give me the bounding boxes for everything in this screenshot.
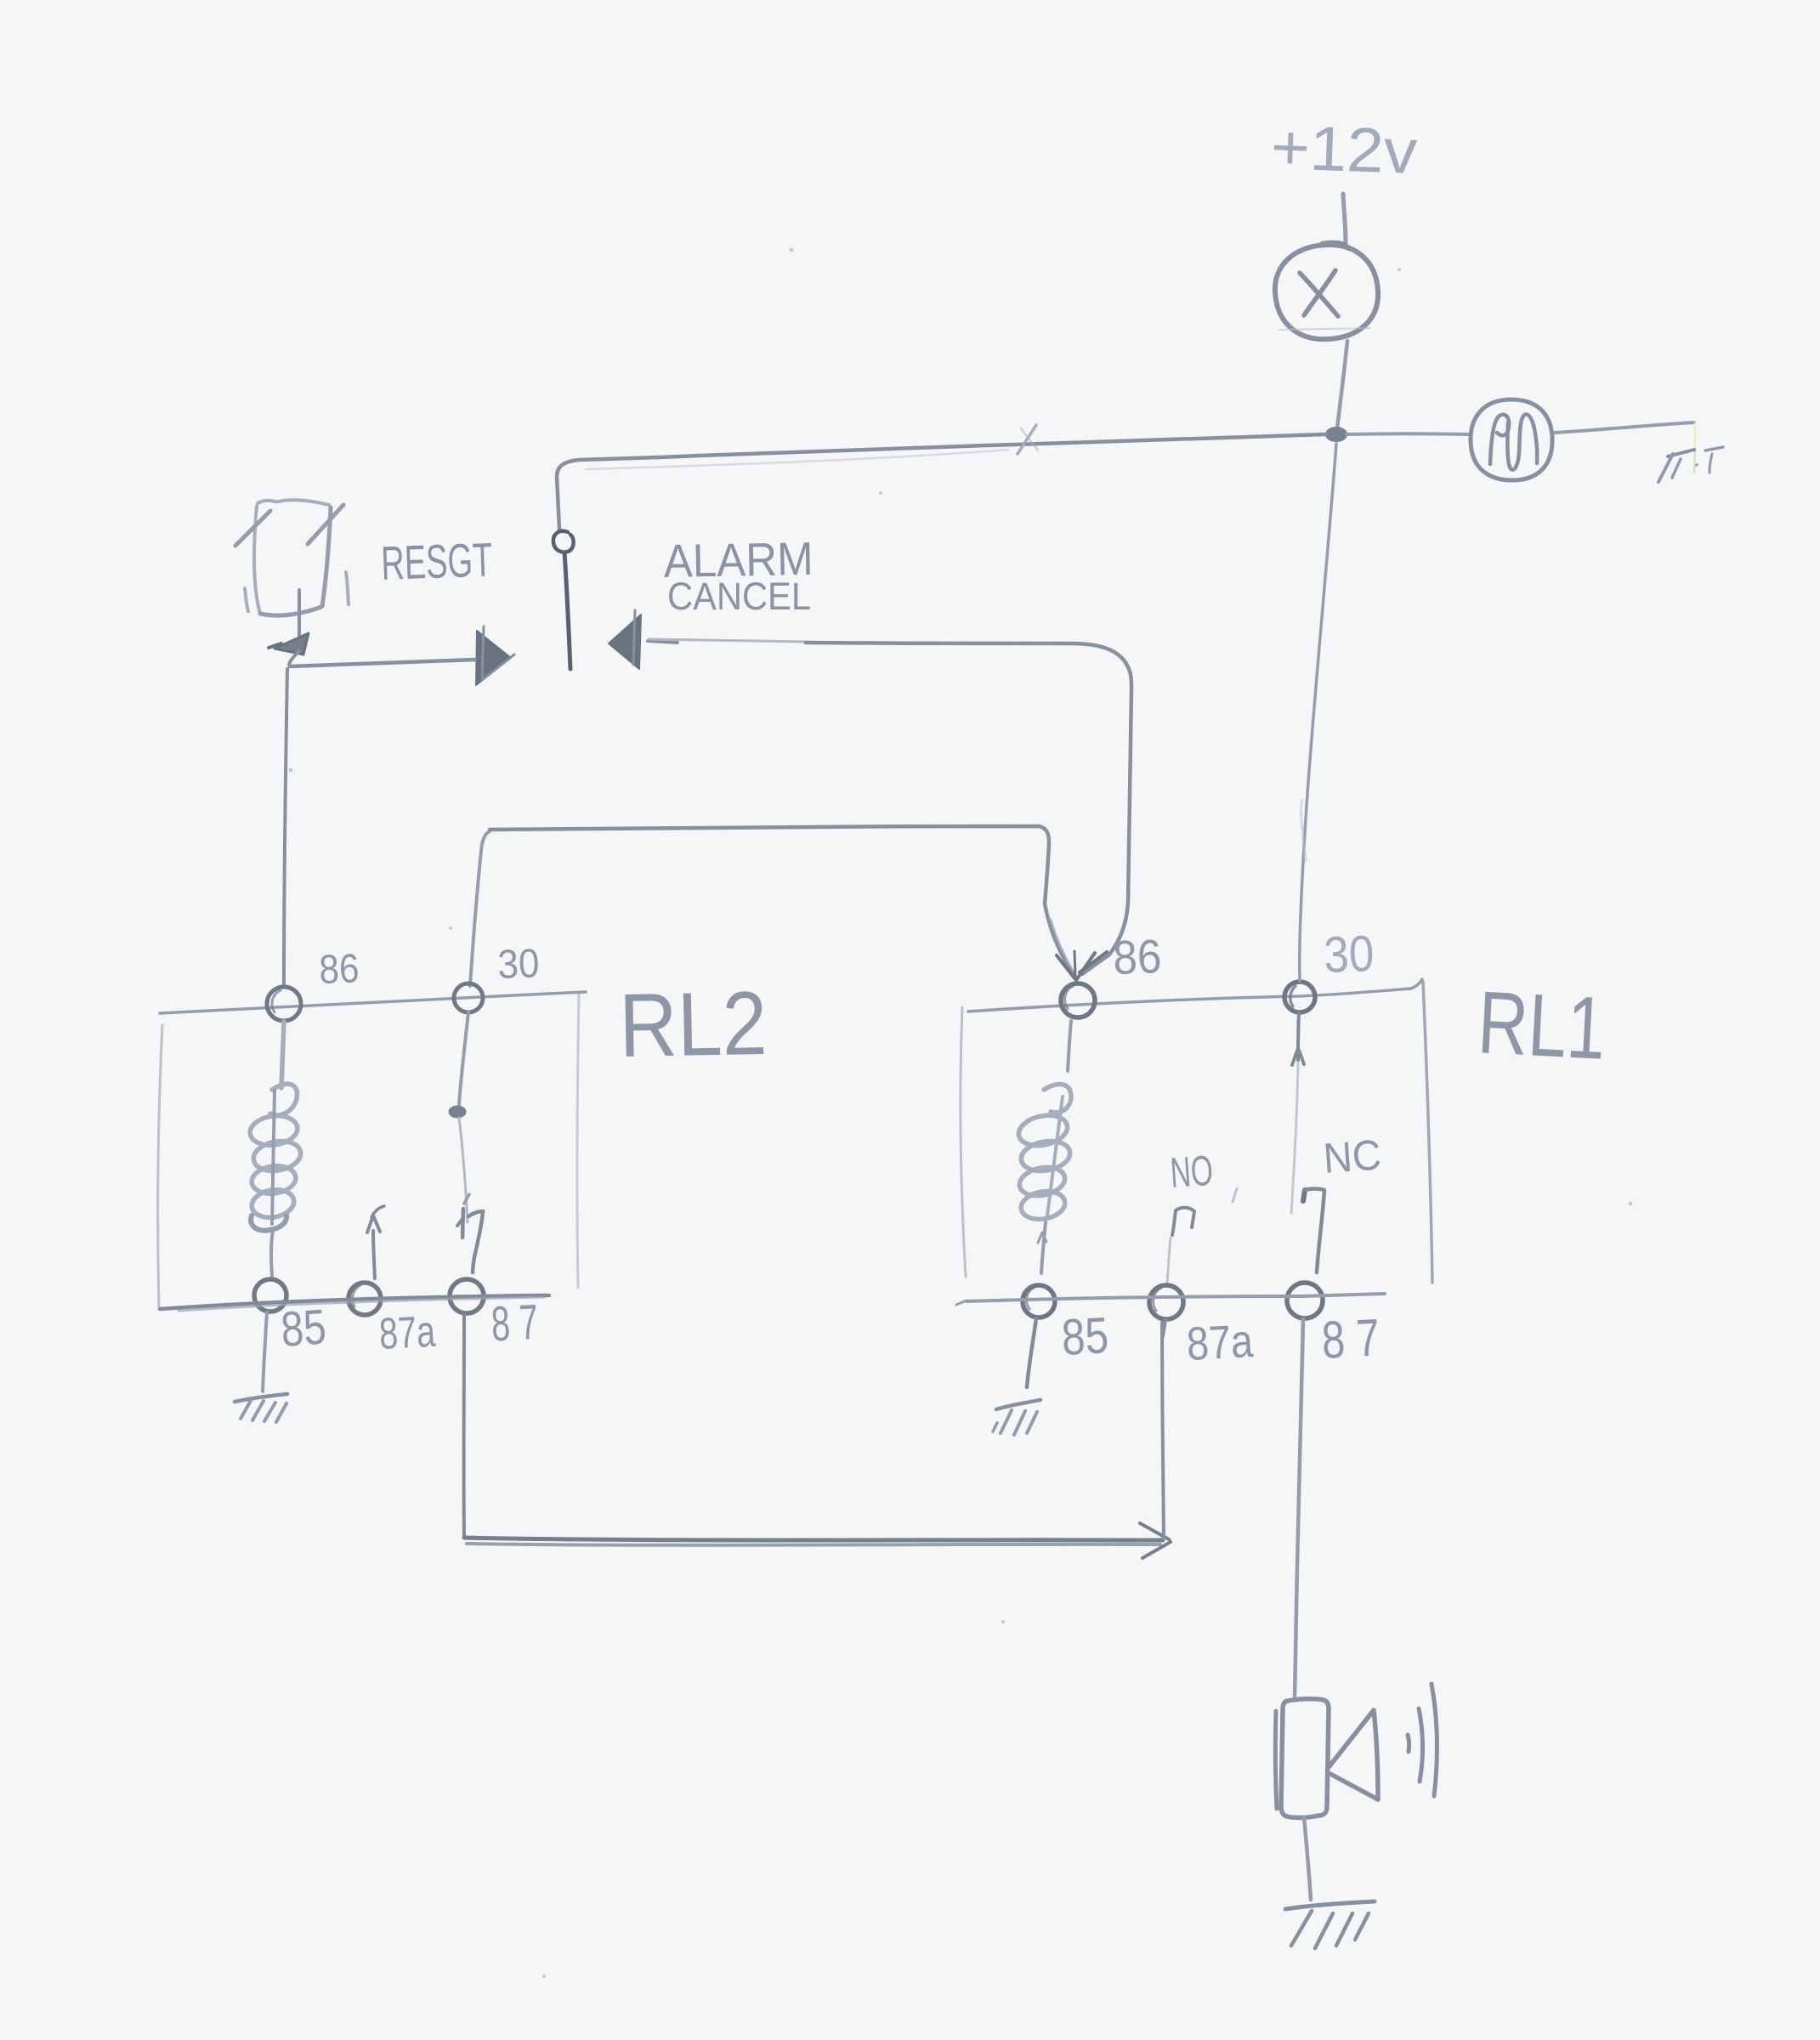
horn H1 cone <box>1329 1710 1378 1799</box>
label RL1 pin 87 <box>1320 1309 1381 1370</box>
wire RL1 87a down to bottom loop <box>1163 1320 1165 1336</box>
label RL2 <box>618 973 768 1076</box>
label RL2 pin 87 <box>490 1295 539 1352</box>
label RESET <box>380 532 493 590</box>
relay RL2 box <box>158 994 579 1306</box>
relay RL1 pin 87 terminal <box>1287 1283 1323 1318</box>
ground (top right) <box>1658 447 1723 482</box>
wire sensor to ground <box>1555 422 1694 433</box>
svg-text:+12v: +12v <box>1270 111 1419 187</box>
scan artifact colored streak <box>1694 422 1698 473</box>
relay RL1 NO hook at 87a <box>1167 1188 1237 1285</box>
relay RL1 pin 30 terminal <box>1284 982 1315 1012</box>
relay RL1 pin 86 terminal <box>1061 983 1095 1017</box>
svg-text:87a: 87a <box>1185 1314 1254 1370</box>
svg-text:NC: NC <box>1322 1130 1383 1182</box>
wire reset button to reset contact and down to RL2 86 <box>284 651 475 984</box>
label ALARM CANCEL <box>663 532 814 618</box>
relay RL2 pin 87a terminal <box>349 1283 381 1315</box>
horn H1 body <box>1275 1699 1329 1818</box>
bottom loop wire RL2 87 to RL1 87a <box>464 1323 1171 1558</box>
svg-text:87a: 87a <box>378 1307 437 1359</box>
relay RL2 movable contact arm <box>459 1118 468 1222</box>
tick mark on rail <box>1018 425 1038 454</box>
wire RL2 85 to ground <box>263 1312 267 1391</box>
label RL1 pin 30 <box>1323 925 1375 983</box>
relay RL2 NO arrow at 87a <box>367 1206 384 1278</box>
alarm cancel contact arrowhead <box>609 610 678 669</box>
wire +12V rail to the right (junction to sensor) <box>1347 432 1470 436</box>
ground under RL2 85 <box>235 1394 287 1422</box>
relay RL1 NC hook at 87 <box>1303 1189 1324 1273</box>
wire RL2 87 down to bottom loop <box>462 1314 466 1535</box>
switch SW1 lever <box>564 552 570 669</box>
relay RL2 coil <box>248 1022 303 1277</box>
svg-text:8 7: 8 7 <box>490 1295 539 1352</box>
relay RL2 top terminal line <box>160 992 586 1013</box>
horn H1 sound waves <box>1408 1684 1437 1796</box>
svg-text:RL1: RL1 <box>1476 973 1608 1079</box>
svg-text:RL2: RL2 <box>618 973 768 1076</box>
label RL2 pin 86 <box>319 946 360 993</box>
svg-text:86: 86 <box>319 946 360 993</box>
sensor/bulb S1 (circle with squiggle) <box>1471 399 1552 480</box>
label RL2 pin 87a <box>378 1307 437 1359</box>
relay RL2 NC hook at 87 <box>457 1194 483 1272</box>
lamp L1 (circle with X) <box>1275 243 1378 339</box>
relay RL2 bottom terminal line <box>160 1295 549 1311</box>
svg-text:CANCEL: CANCEL <box>667 575 811 618</box>
pushbutton plunger arrowhead <box>269 633 309 654</box>
svg-text:30: 30 <box>1323 925 1375 983</box>
label RL1 pin 87a <box>1185 1314 1254 1370</box>
wire RL1 87 down to horn <box>1295 1319 1303 1699</box>
wire junction down to RL1 30 <box>1300 444 1336 981</box>
svg-text:8 7: 8 7 <box>1320 1309 1381 1370</box>
svg-text:RESGT: RESGT <box>380 532 493 590</box>
wire RL2 30 to RL1 86 <box>470 826 1074 986</box>
node +12V supply label <box>1270 111 1419 187</box>
ground under RL1 85 <box>993 1400 1040 1435</box>
relay RL2 pin 87 terminal <box>450 1279 484 1313</box>
svg-text:30: 30 <box>497 941 541 988</box>
svg-text:85: 85 <box>279 1299 327 1357</box>
relay RL1 box <box>961 982 1432 1283</box>
relay RL2 pin 30 terminal <box>454 983 483 1012</box>
label NC <box>1322 1130 1383 1182</box>
wire from +12V to lamp <box>1343 194 1346 244</box>
wire RL1 85 to ground <box>1027 1318 1036 1387</box>
relay RL1 pin 87a terminal <box>1149 1285 1183 1319</box>
arrowhead into RL1 86 <box>1057 951 1095 980</box>
relay RL1 top terminal line <box>968 979 1422 1011</box>
label RL1 pin 85 <box>1060 1306 1109 1366</box>
relay RL2 pin 85 terminal <box>254 1279 286 1312</box>
label NO <box>1169 1147 1215 1197</box>
svg-text:NO: NO <box>1169 1147 1215 1197</box>
label RL2 pin 85 <box>279 1299 327 1357</box>
label RL1 pin 86 <box>1112 929 1162 984</box>
label RL2 pin 30 <box>497 941 541 988</box>
wire +12V rail to the left (junction to switch common) <box>557 434 1326 529</box>
relay RL2 pin 86 terminal <box>267 987 301 1021</box>
ground (bottom, below horn) <box>1285 1901 1375 1948</box>
wire horn to ground <box>1304 1817 1311 1900</box>
wire lamp to junction <box>1337 341 1347 428</box>
wire alarm cancel contact to RL1 86 <box>649 639 1131 974</box>
relay RL1 coil <box>1016 1021 1072 1273</box>
junction node (+12V rail junction dot) <box>1326 428 1347 441</box>
faint paper specks <box>289 248 1633 1979</box>
pushbutton S2 (RESET button) <box>235 500 349 636</box>
relay RL1 bottom terminal line <box>956 1294 1385 1305</box>
switch SW1 common terminal <box>553 531 574 552</box>
label RL1 <box>1476 973 1608 1079</box>
reset contact arrowhead <box>476 626 514 685</box>
svg-text:86: 86 <box>1112 929 1162 984</box>
relay RL2 hinge dot on 30 wire <box>449 1012 468 1118</box>
relay RL1 pin 85 terminal <box>1023 1285 1055 1317</box>
relay RL1 NC wire with up arrow <box>1291 1013 1304 1213</box>
svg-text:85: 85 <box>1060 1306 1109 1366</box>
